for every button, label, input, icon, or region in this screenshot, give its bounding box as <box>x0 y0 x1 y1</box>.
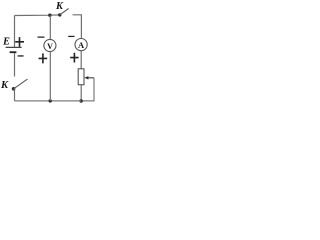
wire: bottom rail <box>15 100 82 102</box>
wire: rheostat bottom lead to bottom rail <box>80 85 82 101</box>
battery minus polarity label <box>18 55 24 56</box>
wire: ammeter bottom to rheostat top <box>80 51 82 69</box>
rheostat slider arrowhead <box>84 76 88 79</box>
svg-text:K: K <box>55 1 64 12</box>
svg-text:E: E <box>2 37 10 48</box>
svg-text:K: K <box>0 80 9 91</box>
wire: battery negative down to switch K2 fixed contact <box>14 53 16 76</box>
wire: voltmeter branch from top node down to voltmeter <box>49 15 51 39</box>
switch K2 pivot dot <box>12 87 16 91</box>
node: junction of voltmeter branch on top rail <box>48 14 51 17</box>
ammeter plus polarity label <box>70 53 78 63</box>
rheostat R body <box>78 69 84 85</box>
switch K1 open blade <box>60 9 69 15</box>
voltmeter V circle <box>44 39 56 51</box>
voltmeter plus polarity label <box>39 53 48 63</box>
battery E long positive plate <box>6 46 22 48</box>
switch K1 pivot dot <box>58 13 61 16</box>
battery E short negative plate <box>10 51 17 53</box>
voltmeter minus polarity label <box>38 37 45 38</box>
ammeter minus polarity label <box>68 36 74 37</box>
rheostat slider arrow shaft <box>88 77 94 79</box>
svg-text:V: V <box>47 42 53 51</box>
wire: voltmeter bottom to bottom rail <box>49 52 51 101</box>
wire: switch K2 pivot down to bottom-left corner <box>14 89 16 101</box>
node: junction of rheostat lead with bottom rail <box>79 99 82 102</box>
battery plus polarity label <box>15 37 24 47</box>
wire: top rail from left corner to switch pivot <box>15 14 60 17</box>
svg-text:A: A <box>78 40 85 50</box>
ammeter A circle <box>75 39 87 51</box>
node: junction of voltmeter branch on bottom rail <box>49 99 52 102</box>
switch K2 open blade <box>14 79 28 89</box>
wire: left rail from top corner down to battery <box>14 16 16 48</box>
wire: slider arm down right side to bottom rail corner <box>81 78 94 101</box>
wire: top rail from switch fixed contact to corner, down to ammeter <box>73 15 82 39</box>
